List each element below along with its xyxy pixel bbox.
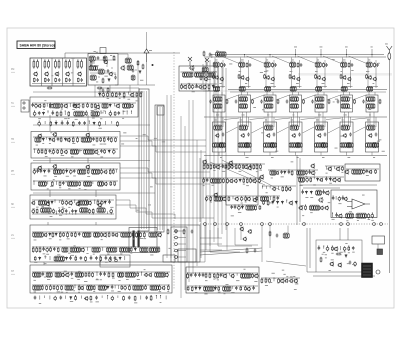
svg-text:PH: PH [11,171,15,173]
value label [73,180,76,183]
transistor Q55 [219,77,223,82]
wire [273,60,275,88]
junction [123,111,124,112]
wire [309,228,311,268]
diode D20 [134,248,136,252]
value label [120,253,122,256]
wire [100,111,102,114]
wire [68,212,70,215]
wire [313,177,315,179]
switch bar S2 [133,231,135,248]
wire [33,148,118,150]
wire [111,121,113,124]
wire [373,112,375,126]
svg-text:TB: TB [11,139,14,141]
wire [117,296,119,298]
value label [136,99,139,102]
junction [70,256,71,257]
resistor network R116 [149,232,157,237]
value label [347,262,350,265]
wire [371,152,373,156]
crossover wire [275,118,291,120]
value label [96,278,98,281]
transistor Q2 [44,72,49,77]
value label [340,251,343,254]
junction [50,247,51,248]
transistor Q66 [367,75,371,80]
resistor network R227 [214,125,222,130]
resistor network R73 [53,169,61,174]
value label [331,252,333,255]
junction [245,196,246,197]
resistor R123 [57,247,59,252]
node J4 [240,223,243,226]
value label [344,251,346,254]
transistor Q15 [63,103,68,108]
resistor R135 [85,256,87,261]
tuner ground rail [32,83,85,85]
value label [102,288,105,291]
junction [81,60,82,61]
resistor network R272 [260,196,268,201]
wire [115,84,155,86]
wire [213,62,215,242]
resistor network R187 [290,62,296,67]
wire [116,200,175,219]
diode D5 [109,104,111,108]
capacitor C133 [354,261,357,266]
junction [199,273,200,274]
resistor R81 [51,181,53,187]
switch S1 [377,249,383,255]
capacitor C115 [325,177,328,181]
value label [136,137,138,140]
resistor network R45 [74,111,84,116]
resistor R13 [90,61,92,67]
wire [375,117,377,127]
resistor network R224 [367,97,375,102]
crossover wire [276,95,290,100]
resistor R309 [252,273,254,278]
resistor network R283 [299,177,305,182]
resistor R250 [210,164,212,170]
value label [290,275,293,278]
resistor network R99 [33,232,43,237]
junction [39,121,40,122]
resistor network R40 [102,103,108,108]
wire [98,91,143,93]
resistor network R8 [90,75,96,80]
capacitor C20 [52,111,55,115]
wire [44,256,46,259]
resistor network R89 [38,200,46,205]
wire [218,152,220,156]
value label [59,186,61,189]
value label [338,202,341,205]
wire [184,126,186,290]
wire [299,60,301,88]
resistor network R147 [125,272,135,277]
value label [277,206,279,209]
junction [33,60,34,61]
connector pin 1 [175,230,178,233]
junction [75,295,76,296]
capacitor C122 [322,190,325,194]
transistor Q41 [102,232,107,237]
resistor R39 [94,103,96,108]
junction [262,186,263,187]
switch bank stage [30,225,200,262]
transistor Q36 [87,201,91,206]
junction [73,137,74,138]
resistor R63 [110,137,112,143]
crossover wire [327,95,341,100]
wire [90,59,116,61]
wire [94,85,96,97]
wire [299,117,301,127]
wire [105,121,107,125]
value label [256,170,259,173]
resistor network R59 [81,137,91,142]
resistor R259 [260,164,262,169]
value label [373,82,375,85]
resistor network R161 [98,285,106,290]
resistor network R133 [54,256,64,261]
resistor R260 [203,178,205,183]
wire [157,107,159,230]
resistor R278 [282,186,284,192]
capacitor C43 [47,200,50,204]
resistor R115 [143,232,145,238]
value label [113,181,116,184]
transistor Q35 [68,200,73,205]
diode D31 [310,191,312,195]
diode D39 [199,287,201,291]
diode D1 [108,78,110,82]
wire [58,200,60,203]
transistor Q45 [60,273,64,278]
value label [68,187,70,190]
value label [340,135,343,138]
power amplifier block [186,267,259,293]
transistor Q97 [336,166,340,171]
resistor R42 [56,111,58,117]
wire [342,117,344,127]
svg-text:TA: TA [11,102,14,105]
junction [332,246,333,247]
wire [317,90,319,96]
resistor R92 [97,200,99,205]
value label [140,237,143,240]
resistor R170 [90,296,92,301]
value label [34,279,36,282]
value label [136,271,139,274]
transistor Q79 [233,179,237,183]
junction [113,149,114,150]
value label [169,247,172,250]
resistor network R55 [35,137,41,142]
wire [349,92,351,95]
resistor R281 [375,169,377,174]
capacitor C67 [42,272,45,276]
resistor network R85 [84,181,92,186]
resistor R68 [57,149,59,154]
resistor R155 [57,285,59,291]
resistor R90 [62,200,64,205]
capacitor C61 [80,256,83,260]
capacitor C37 [40,169,43,173]
value label [315,70,318,73]
trimmer X1 [188,57,192,66]
resistor R265 [246,178,248,183]
transistor Q99 [332,177,336,182]
transistor Q57 [245,77,249,82]
resistor network R247 [373,143,379,148]
wire [170,95,172,258]
resistor R251 [213,164,215,169]
junction [62,200,63,201]
junction [219,54,220,55]
value label [98,153,100,156]
junction [327,246,328,247]
value label [132,76,135,79]
junction [131,111,132,112]
diode D19 [55,233,57,237]
wire [371,55,373,58]
value label [262,108,264,111]
wire [44,121,46,124]
wire [162,107,164,230]
wire [323,92,325,95]
junction [101,169,102,170]
resistor R195 [340,74,342,79]
transistor Q56 [240,75,244,80]
crossover wire [226,127,238,133]
wire [120,173,210,178]
value label [46,253,49,256]
value label [159,290,162,293]
resistor R79 [112,169,114,174]
resistor R3 [55,78,57,83]
value label [322,253,324,256]
junction [112,285,113,286]
capacitor C22 [118,111,121,115]
cable harness B [155,105,164,232]
capacitor C8 [107,69,110,73]
junction [112,92,113,93]
capacitor C91 [286,100,289,104]
wire [291,58,293,89]
capacitor C100 [349,133,352,137]
wire [120,168,210,172]
transistor Q93 [252,198,257,203]
resistor R51 [50,121,52,126]
transistor Q54 [214,75,218,80]
capacitor C60 [69,256,72,260]
value label [320,46,323,49]
wire [240,58,242,89]
junction [156,295,157,296]
wire [43,262,45,265]
value label [111,290,114,293]
junction [74,103,75,104]
transistor Q26 [37,134,42,139]
junction [235,205,236,206]
resistor network R127 [106,247,116,252]
capacitor C24 [61,121,64,125]
connector pin 2 [175,236,178,239]
resistor R2 [44,78,46,83]
resistor network R219 [341,86,347,91]
resistor R282 [342,166,344,171]
junction [240,286,241,287]
resistor network R91 [78,200,88,205]
value label [216,114,219,117]
resistor R113 [136,232,138,238]
value label [352,263,355,266]
junction [99,77,100,78]
junction [209,273,210,274]
capacitor C130 [343,246,346,251]
resistor R132 [34,256,36,261]
value label [45,79,47,82]
junction [152,64,154,66]
resistor network R138 [46,272,52,277]
wire [87,115,89,131]
capacitor C107 [240,196,243,201]
diode D32 [241,206,243,210]
value label [217,278,219,281]
capacitor C126 [276,234,279,238]
crossover wire [326,118,342,120]
junction [109,232,110,233]
resistor R87 [110,181,112,186]
value label [50,185,53,188]
value label [254,280,257,283]
junction [189,84,190,85]
junction [34,149,35,150]
resistor network R236 [290,125,298,130]
diode D38 [195,287,197,291]
DIN socket P2 [21,100,29,112]
resistor R122 [50,247,52,252]
resistor R5 [77,78,79,83]
value label [96,51,98,54]
junction [206,273,207,274]
capacitor C88 [209,100,212,104]
resistor network R75 [78,169,86,174]
resistor network R215 [316,86,322,91]
diode D17 [75,210,77,214]
value label [149,49,152,52]
value label [285,281,288,284]
value label [341,171,343,174]
junction [203,178,204,179]
capacitor C35 [33,169,36,174]
antenna element [388,53,391,61]
value label [215,277,218,280]
capacitor C128 [318,246,321,250]
value label [188,82,191,85]
resistor network R308 [241,273,251,278]
value label [295,283,298,286]
resistor network R231 [238,143,248,148]
capacitor C110 [288,170,291,174]
value label [44,99,46,102]
wire [146,91,148,229]
FM antenna [387,46,393,53]
wire [217,64,219,238]
value label [266,59,268,62]
capacitor C125 [238,205,241,210]
resistor R62 [103,137,105,142]
junction [105,256,106,257]
resistor R52 [72,121,74,127]
wire [240,86,251,88]
value label [84,188,86,191]
value label [222,170,225,173]
resistor network R146 [118,272,124,277]
resistor R23 [181,84,183,89]
wire [347,228,349,240]
value label [236,279,239,282]
junction [101,111,102,112]
wire [122,111,124,115]
value label [96,278,99,281]
transistor Q87 [287,187,291,191]
resistor network R94 [41,208,51,213]
capacitor C120 [371,213,374,218]
transistor Q72 [317,133,321,138]
wire [165,296,167,300]
wire [118,54,128,60]
junction [79,285,80,286]
wire [248,60,250,88]
value label [94,108,97,111]
diode D25 [70,296,72,300]
resistor R28 [115,92,117,97]
resistor R295 [267,200,269,206]
value label [103,110,106,113]
value label [39,302,41,305]
value label [104,70,106,73]
resistor network R70 [70,149,78,154]
value label [95,64,98,67]
diode D4 [99,93,101,97]
resistor R263 [227,178,229,184]
wire [271,112,273,126]
junction [110,169,111,170]
wire [350,117,352,127]
capacitor C29 [92,137,95,141]
resistor R142 [88,272,90,277]
transistor Q98 [319,178,323,182]
resistor R65 [38,149,40,154]
capacitor C63 [95,256,98,260]
capacitor C41 [100,169,103,174]
wire [74,285,76,288]
wire [269,226,271,249]
wire [69,103,71,107]
capacitor C76 [95,296,98,300]
resistor R152 [46,285,48,290]
wire [297,112,299,126]
margin tick [11,141,15,143]
wire [247,92,249,95]
capacitor C53 [110,209,113,214]
resistor network R285 [346,213,354,218]
wire [210,54,384,56]
